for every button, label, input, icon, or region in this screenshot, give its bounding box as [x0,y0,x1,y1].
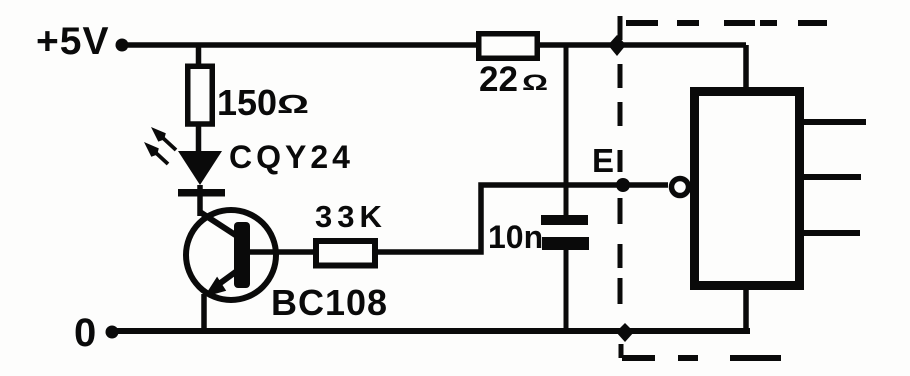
wire IC bottom pin [743,286,749,331]
wire 150-ohm bottom lead [196,123,202,153]
inverter input bubble [672,179,689,196]
emitter diagonal [219,268,241,284]
dashed boundary vertical line [620,16,621,358]
wire transistor emitter to ground rail [201,294,207,333]
resistor 22 ohm [479,34,548,99]
label +5V [36,20,109,63]
junction ground rail / dashed boundary [616,323,634,342]
junction top rail / dashed boundary [608,35,626,56]
transistor BC108 [186,210,388,323]
svg-text:22: 22 [479,60,518,99]
wire +5V top rail [121,42,746,48]
wire IC output pin 3 [804,230,860,236]
IC box [695,92,800,286]
svg-text:Ω: Ω [522,70,548,95]
light arrow 1 [163,138,176,150]
svg-text:33K: 33K [315,199,387,234]
light arrow 2 [155,152,168,164]
resistor 33K [315,199,387,266]
svg-text:10n: 10n [488,219,543,255]
svg-text:BC108: BC108 [271,282,388,323]
wire IC top pin [743,45,749,91]
wire 33K to node E riser [376,185,668,252]
svg-text:0: 0 [74,311,96,355]
wire capacitor bottom lead [564,248,569,332]
svg-text:E: E [592,142,614,179]
anode triangle [178,151,222,185]
svg-text:+5V: +5V [36,20,109,63]
wire LED cathode to transistor collector [197,185,203,216]
node E [592,142,630,192]
node +5V terminal dot [116,39,129,52]
cathode bar [178,189,225,197]
resistor 150 ohm [188,66,309,124]
LED CQY24 [144,127,354,197]
base bar [234,222,250,288]
dashed boundary bottom horizontal [622,355,781,361]
capacitor 10n [488,215,589,255]
emitter arrowhead [204,277,226,297]
wire transistor base lead [250,249,315,255]
svg-text:150: 150 [217,82,277,123]
svg-text:Ω: Ω [277,89,309,119]
wire 0V ground rail [110,328,750,334]
label 0 [74,311,96,355]
wire 150-ohm top lead [196,45,202,68]
collector diagonal [200,212,240,238]
svg-text:CQY24: CQY24 [229,139,354,175]
wire capacitor top lead [564,45,569,216]
wire IC output pin 1 [804,119,866,125]
node 0V terminal dot [106,326,119,339]
wire IC output pin 2 [804,174,861,180]
dashed boundary top horizontal [626,20,827,26]
